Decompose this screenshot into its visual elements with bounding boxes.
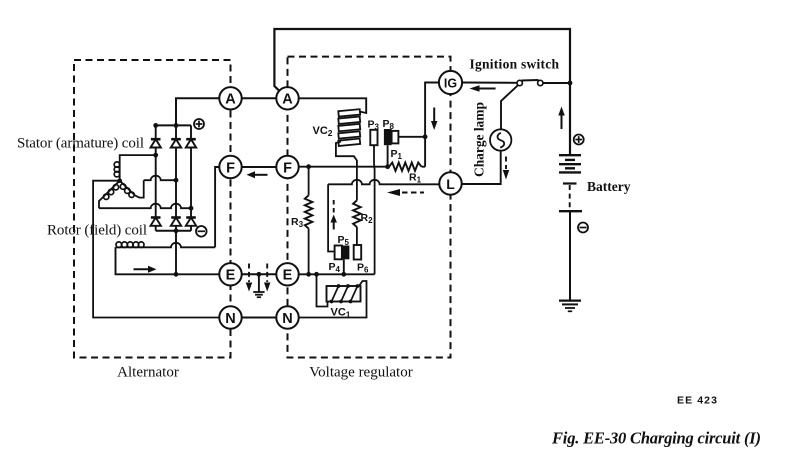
- node junction E link / ground: [257, 272, 262, 277]
- svg-text:VC2: VC2: [313, 125, 333, 138]
- wire P3 lead to E row (crosses F row and L wire): [373, 145, 376, 274]
- svg-text:Stator (armature) coil: Stator (armature) coil: [17, 136, 144, 152]
- svg-text:IG: IG: [444, 76, 457, 90]
- wire F row (F terminal to R1): [298, 166, 389, 168]
- node star point: [117, 178, 122, 183]
- caption Fig. EE-30 Charging circuit (I): [551, 429, 761, 448]
- diode D4 (negative side): [151, 218, 161, 226]
- diode D1 (positive side): [151, 139, 161, 147]
- node junction R3 / E row: [306, 272, 311, 277]
- wire F to F link: [241, 166, 276, 168]
- terminal circle F (alternator): [219, 156, 241, 178]
- svg-text:Alternator: Alternator: [117, 365, 179, 381]
- label R1: [409, 172, 422, 185]
- svg-text:N: N: [282, 311, 292, 327]
- current arrow up toward battery: [558, 107, 565, 130]
- svg-text:Ignition switch: Ignition switch: [470, 57, 560, 72]
- svg-text:L: L: [446, 176, 455, 192]
- wire VC2 bottom to F row: [336, 142, 357, 167]
- wire L to P5 contact (hops R2 and P3 leads): [328, 180, 439, 252]
- svg-text:P6: P6: [357, 262, 369, 275]
- label VC1: [331, 307, 351, 320]
- svg-text:P8: P8: [383, 118, 395, 131]
- svg-text:P5: P5: [338, 234, 350, 247]
- stator coil phase 3 (lower-right winding): [120, 180, 144, 197]
- svg-text:R1: R1: [409, 172, 422, 185]
- svg-text:F: F: [283, 160, 292, 176]
- node junction E row / middle column: [174, 272, 179, 277]
- svg-text:Battery: Battery: [587, 179, 631, 194]
- ignition switch contacts and blade: [517, 80, 543, 86]
- label P1: [391, 148, 403, 161]
- svg-text:R3: R3: [291, 216, 304, 229]
- label R2: [361, 212, 374, 225]
- wire IG branch (vertical to IG terminal): [425, 83, 439, 167]
- label Stator (armature) coil: [17, 136, 144, 152]
- current arrow on rotor circuit: [134, 266, 157, 273]
- node junction P8 wire / IG branch: [423, 134, 428, 139]
- wire charge lamp to L: [462, 151, 501, 184]
- wire A to A link: [241, 97, 276, 99]
- label P5: [338, 234, 350, 247]
- charge lamp: [490, 129, 511, 150]
- wire phase 3 to middle column (hops left column): [144, 176, 176, 181]
- diode D3 (positive side): [186, 139, 196, 147]
- resistor R2 with leads: [353, 167, 361, 245]
- terminal circle N (alternator): [219, 306, 241, 328]
- svg-text:Rotor (field) coil: Rotor (field) coil: [47, 223, 147, 239]
- wire battery negative to ground: [569, 211, 571, 300]
- wire IG to switch: [462, 82, 517, 84]
- diode D5 (negative side): [171, 218, 181, 226]
- terminal circle IG: [439, 71, 462, 94]
- label Battery: [587, 179, 631, 194]
- svg-text:R2: R2: [361, 212, 374, 225]
- label P8: [383, 118, 395, 131]
- wire rotor coil to E row: [116, 247, 220, 274]
- label P3: [368, 119, 380, 132]
- node junction bus left end: [153, 123, 158, 128]
- terminal circle L: [439, 172, 461, 194]
- wire positive bus of rectifier: [156, 124, 191, 126]
- wire switch to battery rail: [543, 82, 570, 84]
- wire middle column to E row: [175, 231, 177, 274]
- wire P8 to IG branch node: [398, 136, 425, 138]
- wire P1 lead (black contact to F row): [387, 145, 389, 167]
- svg-text:P3: P3: [368, 119, 380, 132]
- ground at E link: [253, 274, 264, 297]
- label Rotor (field) coil: [47, 223, 147, 239]
- plus symbol at positive bus: [194, 119, 204, 129]
- svg-text:EE 423: EE 423: [677, 395, 718, 407]
- terminal circle F (regulator): [276, 156, 298, 178]
- label Charge lamp: [472, 102, 487, 177]
- stator coil phase 1 (top winding): [114, 155, 155, 181]
- label P6: [357, 262, 369, 275]
- contact P4/P5 pair (fixed + moving black): [335, 246, 350, 260]
- label EE423: [677, 395, 718, 407]
- node junction phase3 / middle column: [174, 178, 179, 183]
- wire diode bridge right column: [190, 125, 192, 230]
- node junction R3 / F row: [306, 164, 311, 169]
- dashed current arrow upward near P5: [330, 200, 337, 230]
- wire from terminal A to positive bus: [176, 98, 220, 125]
- label R3: [291, 216, 304, 229]
- svg-text:E: E: [226, 268, 236, 284]
- current arrow between F terminals: [247, 171, 268, 178]
- node junction P1 / F row: [385, 164, 390, 169]
- wire E row to VC1 left: [317, 274, 328, 306]
- dashed current arrow right of ground: [264, 264, 271, 292]
- diode D2 (positive side): [171, 139, 181, 147]
- contact P3: [370, 130, 377, 145]
- svg-text:N: N: [225, 311, 235, 327]
- minus symbol at negative bus: [196, 226, 207, 237]
- wire negative bus of rectifier: [156, 230, 191, 232]
- terminal circle E (alternator): [219, 263, 241, 285]
- svg-text:Charge lamp: Charge lamp: [472, 102, 487, 177]
- terminal circle E (regulator): [276, 263, 298, 285]
- node junction phase1 / left column: [153, 153, 158, 158]
- node junction positive bus / A wire: [174, 123, 179, 128]
- label Ignition switch: [470, 57, 560, 72]
- wire star point to terminal N: [93, 181, 220, 318]
- node junction VC1 / E row: [314, 272, 319, 277]
- svg-text:Voltage regulator: Voltage regulator: [309, 365, 412, 381]
- wire E row in regulator: [298, 273, 374, 275]
- diode D6 (negative side): [186, 218, 196, 226]
- node junction switch / battery rail: [568, 81, 573, 86]
- wire diode bridge middle column: [175, 125, 177, 230]
- wire terminal F to rotor coil: [144, 167, 220, 247]
- wire regulator A to relay coil VC2: [298, 98, 366, 113]
- rotor field coil: [116, 242, 145, 248]
- resistor R1: [389, 163, 425, 171]
- label P4: [329, 261, 341, 274]
- voltage regulator enclosure (dashed box): [288, 57, 451, 358]
- alternator enclosure (dashed box): [74, 60, 231, 358]
- node junction P5 / E row: [341, 272, 346, 277]
- plus symbol at battery: [574, 135, 584, 145]
- terminal circle A (alternator): [219, 87, 241, 109]
- current arrow toward IG: [470, 85, 496, 92]
- node junction negative bus: [174, 228, 179, 233]
- terminal circle A (regulator): [276, 87, 298, 109]
- current arrow inside regulator (down): [431, 108, 438, 131]
- dashed current arrow left of ground: [246, 264, 253, 292]
- label Alternator: [117, 365, 179, 381]
- wire P5 black contact to E row: [343, 259, 345, 274]
- wire diode bridge left column: [155, 125, 157, 230]
- wire phase 2 to right column (hops left and middle columns): [99, 204, 191, 209]
- wire VC1 right to N row: [298, 281, 366, 318]
- svg-text:A: A: [225, 92, 236, 108]
- svg-text:Fig. EE-30 Charging circuit (: Fig. EE-30 Charging circuit (I): [551, 429, 761, 448]
- label VC2: [313, 125, 333, 138]
- label Voltage regulator: [309, 365, 412, 381]
- wire E to E link: [241, 273, 276, 275]
- node junction phase2 / right column: [189, 206, 194, 211]
- wire regulator A to battery positive (top rail): [274, 29, 570, 154]
- stator coil phase 2 (lower-left winding): [99, 181, 120, 209]
- battery: [559, 155, 582, 211]
- contact P6: [354, 245, 362, 260]
- dashed current arrow toward L (left): [387, 189, 424, 196]
- svg-text:F: F: [226, 160, 235, 176]
- svg-text:P4: P4: [329, 261, 341, 274]
- relay coil VC1: [327, 284, 361, 303]
- svg-text:P1: P1: [391, 148, 403, 161]
- resistor R3: [305, 167, 313, 275]
- svg-text:A: A: [282, 92, 293, 108]
- minus symbol at battery: [578, 223, 588, 233]
- ground at battery: [559, 301, 581, 312]
- svg-text:E: E: [283, 268, 293, 284]
- wire N to N link: [241, 317, 276, 319]
- contact P8 (moving black + fixed): [384, 129, 399, 145]
- dashed current arrow below lamp (down): [503, 157, 510, 180]
- relay coil VC2: [338, 109, 360, 146]
- terminal circle N (regulator): [276, 306, 298, 328]
- wire switch lever to charge lamp: [501, 86, 518, 130]
